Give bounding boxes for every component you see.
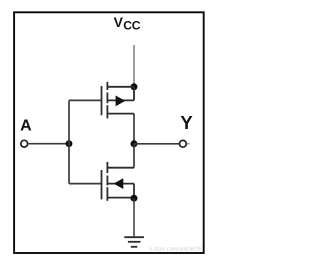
svg-text:Y: Y xyxy=(180,112,193,133)
net label VCC xyxy=(114,14,141,32)
svg-text:V: V xyxy=(114,14,124,30)
wire NMOS source to ground xyxy=(133,198,135,237)
wire output node to NMOS drain xyxy=(133,144,135,168)
wire gate bus vertical xyxy=(68,100,70,183)
terminal Y xyxy=(180,140,187,147)
svg-text:CC: CC xyxy=(123,19,141,33)
wire NMOS gate lead xyxy=(69,183,102,185)
wire VCC supply xyxy=(133,45,135,87)
svg-text:A: A xyxy=(20,117,32,134)
node Y junction dot xyxy=(131,140,138,147)
transistor Q2 (NMOS) xyxy=(102,162,135,201)
junction dot input gate node xyxy=(66,140,73,147)
junction dot PMOS source/bulk at VCC xyxy=(131,83,138,90)
wire PMOS drain to output node xyxy=(133,114,135,144)
wire output node to Y terminal xyxy=(134,143,180,145)
wire A terminal to gate node xyxy=(28,143,69,145)
transistor Q1 (PMOS) xyxy=(102,82,135,119)
terminal A xyxy=(21,140,28,147)
svg-text:n.dzsc.com/article/16: n.dzsc.com/article/16 xyxy=(149,247,202,253)
terminal Y nub xyxy=(187,143,190,145)
wire PMOS gate lead xyxy=(69,99,102,101)
junction dot NMOS source/bulk xyxy=(131,195,138,202)
ground xyxy=(124,237,144,247)
